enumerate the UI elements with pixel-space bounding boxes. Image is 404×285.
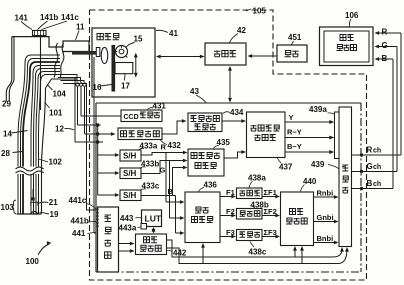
svg-text:434: 434: [230, 108, 244, 117]
svg-text:42: 42: [237, 26, 246, 35]
svg-text:B−Y: B−Y: [287, 142, 302, 151]
svg-text:28: 28: [1, 149, 10, 158]
svg-text:102: 102: [49, 158, 63, 167]
svg-text:141c: 141c: [61, 13, 79, 22]
svg-text:438c: 438c: [249, 248, 267, 257]
svg-text:R: R: [367, 146, 373, 155]
svg-text:G: G: [367, 162, 373, 171]
svg-text:B: B: [367, 179, 373, 188]
svg-text:ch: ch: [373, 148, 381, 155]
svg-text:141: 141: [15, 14, 29, 23]
svg-text:11: 11: [76, 23, 85, 32]
svg-text:41: 41: [169, 29, 178, 38]
svg-text:436: 436: [204, 181, 218, 190]
svg-text:R: R: [382, 28, 388, 37]
svg-text:141b: 141b: [40, 13, 58, 22]
svg-text:F2: F2: [226, 207, 235, 216]
svg-text:LUT: LUT: [145, 214, 162, 224]
svg-text:12: 12: [55, 125, 64, 134]
svg-text:442: 442: [173, 249, 187, 258]
svg-text:R: R: [161, 142, 167, 151]
svg-text:F1: F1: [226, 188, 235, 197]
svg-text:431: 431: [153, 102, 167, 111]
svg-text:Bnbi: Bnbi: [317, 234, 334, 243]
svg-text:100: 100: [26, 257, 40, 266]
svg-text:S/H: S/H: [123, 191, 137, 200]
svg-text:101: 101: [49, 109, 63, 118]
svg-text:433a: 433a: [140, 142, 158, 151]
svg-text:ΣF2: ΣF2: [264, 207, 277, 216]
svg-text:G: G: [382, 41, 388, 50]
svg-text:19: 19: [50, 210, 59, 219]
svg-text:21: 21: [49, 198, 58, 207]
svg-text:43: 43: [190, 87, 199, 96]
svg-text:F3: F3: [226, 228, 235, 237]
svg-text:104: 104: [53, 90, 67, 99]
svg-text:14: 14: [3, 130, 12, 139]
svg-text:441: 441: [72, 229, 86, 238]
svg-text:438a: 438a: [248, 174, 266, 183]
svg-text:437: 437: [279, 163, 293, 172]
svg-text:443: 443: [120, 214, 134, 223]
svg-text:Rnbi: Rnbi: [317, 189, 334, 198]
svg-text:Gnbi: Gnbi: [317, 213, 334, 222]
svg-text:17: 17: [121, 82, 130, 91]
svg-text:439a: 439a: [309, 105, 327, 114]
svg-text:441b: 441b: [71, 217, 89, 226]
svg-text:CCD: CCD: [124, 114, 139, 121]
svg-text:S/H: S/H: [123, 151, 137, 160]
svg-text:440: 440: [303, 177, 317, 186]
svg-text:ch: ch: [373, 164, 381, 171]
svg-text:105: 105: [253, 7, 267, 16]
svg-text:439: 439: [311, 160, 325, 169]
svg-text:ΣF1: ΣF1: [264, 188, 277, 197]
svg-text:S/H: S/H: [123, 169, 137, 178]
svg-text:15: 15: [134, 35, 143, 44]
svg-text:ch: ch: [373, 181, 381, 188]
svg-text:R−Y: R−Y: [287, 128, 302, 137]
svg-text:432: 432: [168, 141, 182, 150]
svg-text:451: 451: [288, 33, 302, 42]
svg-text:ΣF3: ΣF3: [264, 228, 277, 237]
svg-text:443a: 443a: [119, 224, 137, 233]
svg-text:Y: Y: [289, 113, 294, 122]
svg-text:29: 29: [2, 100, 11, 109]
svg-text:441c: 441c: [69, 196, 87, 205]
svg-text:103: 103: [1, 203, 15, 212]
svg-text:106: 106: [345, 11, 359, 20]
